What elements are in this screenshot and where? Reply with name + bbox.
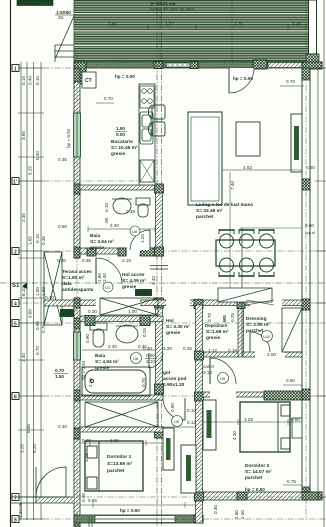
level box 1.00 left: [60, 309, 74, 317]
dining table: [216, 240, 275, 266]
dressing door leaf+arc: [249, 332, 251, 352]
left wall crosshatch columns: [74, 68, 80, 82]
svg-text:2.15: 2.15: [122, 258, 131, 263]
svg-text:S=13.69 m²: S=13.69 m²: [107, 461, 133, 467]
nightstands dorm2: [292, 418, 302, 438]
wall bath1/hol acces y250: [80, 248, 163, 254]
svg-text:1.00: 1.00: [128, 309, 137, 314]
svg-text:0.25: 0.25: [183, 346, 192, 351]
middle wall horizontal y300 full: [80, 300, 302, 306]
svg-text:2.79: 2.79: [234, 22, 243, 27]
grid line axis wall x199: [198, 298, 200, 523]
svg-text:hp = 0.92: hp = 0.92: [66, 128, 71, 148]
svg-text:parchet: parchet: [107, 468, 125, 474]
svg-text:U10: U10: [263, 334, 271, 339]
svg-text:0.70: 0.70: [55, 368, 64, 373]
hol short wall stub: [150, 266, 168, 270]
svg-text:gol: gol: [163, 370, 170, 376]
svg-text:7.40: 7.40: [230, 181, 235, 190]
svg-text:2.40: 2.40: [102, 273, 107, 282]
svg-text:S= 4.09 m²: S= 4.09 m²: [122, 278, 146, 284]
section line vertical S: [157, 0, 162, 527]
svg-text:U8: U8: [132, 229, 138, 234]
top exterior wall: [74, 62, 322, 68]
svg-text:1.20: 1.20: [163, 346, 172, 351]
label Baia 2: [95, 353, 119, 371]
chair 1: [152, 105, 165, 119]
label Depozitare: [205, 323, 229, 341]
svg-text:0.95: 0.95: [81, 493, 86, 502]
axis 4 horizontal: [12, 302, 326, 304]
svg-text:7: 7: [14, 496, 17, 502]
svg-text:S= 10.46 m²: S= 10.46 m²: [111, 145, 138, 151]
dorm2 dim line: [203, 421, 302, 423]
svg-text:0.10: 0.10: [104, 203, 109, 212]
svg-text:0.90: 0.90: [85, 334, 90, 343]
sink bath1: [112, 198, 132, 214]
front door arc: [96, 258, 122, 284]
label Dormitor 2: [245, 463, 272, 481]
wall kitchen/bath1 horizontal y187: [80, 185, 163, 190]
svg-text:hp = 0.00: hp = 0.00: [115, 74, 135, 79]
svg-text:1.50: 1.50: [55, 374, 64, 379]
svg-text:Baia: Baia: [90, 233, 100, 239]
kitchen sink: [140, 112, 153, 144]
svg-text:5: 5: [14, 322, 17, 328]
svg-text:4: 4: [14, 302, 17, 308]
svg-text:0.40: 0.40: [28, 76, 33, 85]
svg-text:2.00: 2.00: [267, 352, 276, 357]
grid bubble 2: [12, 248, 19, 256]
chairs bottom row: [220, 258, 234, 272]
svg-text:Hol: Hol: [166, 318, 174, 324]
wall y430 dorm1 top: [80, 427, 163, 432]
svg-text:0.60: 0.60: [291, 417, 300, 422]
svg-text:U9: U9: [174, 419, 180, 424]
svg-text:2.00: 2.00: [240, 510, 245, 519]
svg-text:0.60: 0.60: [286, 378, 295, 383]
svg-text:0.30: 0.30: [213, 505, 218, 514]
svg-text:gresie: gresie: [90, 245, 104, 251]
svg-text:parchet: parchet: [246, 328, 264, 334]
svg-text:±0.00: ±0.00: [137, 291, 149, 296]
kitchen window in left wall: [74, 113, 81, 157]
svg-text:0.18: 0.18: [228, 348, 237, 353]
svg-text:S=1.68 m²: S=1.68 m²: [206, 329, 229, 335]
svg-text:0.75: 0.75: [287, 479, 296, 484]
svg-text:S= 22.01 mp: S= 22.01 mp: [150, 1, 176, 6]
svg-text:acces pod: acces pod: [163, 376, 187, 382]
svg-text:0.25: 0.25: [142, 328, 147, 337]
svg-text:1.40: 1.40: [151, 276, 156, 285]
grid bubble 6: [12, 393, 19, 401]
svg-text:6.65: 6.65: [26, 424, 31, 433]
svg-text:Baia: Baia: [95, 353, 105, 359]
svg-text:Hol acces: Hol acces: [122, 272, 145, 278]
svg-text:0.70: 0.70: [35, 346, 40, 355]
svg-text:CT: CT: [85, 78, 92, 84]
couch right wall: [291, 114, 302, 172]
svg-text:Dressing: Dressing: [246, 316, 267, 322]
svg-text:8: 8: [14, 518, 17, 524]
label Bucatarie: [111, 139, 138, 157]
bottom wall left part: [74, 515, 203, 523]
spine wall vertical x158 bath1 right: [156, 185, 163, 254]
dorm1 dim line: [80, 442, 163, 444]
living rug line: [240, 227, 302, 229]
svg-text:sup.af: sup.af: [305, 231, 315, 235]
axis 6 horizontal: [12, 395, 326, 397]
terrace door arc: [229, 68, 254, 93]
svg-text:.60: .60: [104, 217, 109, 224]
terasa acces steps box: [44, 252, 62, 325]
svg-text:hp = 0.60: hp = 0.60: [245, 487, 265, 492]
svg-text:dala: dala: [62, 281, 72, 287]
top wall corner columns crosshatch: [74, 62, 86, 84]
svg-text:2.15: 2.15: [88, 378, 93, 387]
door tag U8: [130, 226, 140, 236]
fridge: [140, 160, 154, 182]
grid line axis D (right wall): [305, 0, 307, 520]
svg-text:U1: U1: [105, 285, 111, 290]
dim 7.40 vertical: [229, 172, 231, 300]
label Hol acces: [122, 272, 146, 290]
svg-text:0.70: 0.70: [286, 79, 295, 84]
dressing wardrobe right: [282, 308, 302, 352]
axis 8 horizontal: [12, 518, 326, 520]
svg-text:0.60: 0.60: [28, 309, 33, 318]
grid bubble 8: [12, 516, 19, 524]
section marker S1: [12, 283, 27, 289]
svg-text:0.30: 0.30: [57, 258, 66, 263]
dim ticks left: [18, 68, 44, 519]
svg-text:1.20: 1.20: [140, 234, 145, 243]
svg-text:1': 1': [13, 180, 17, 186]
CT boiler box: [82, 72, 96, 88]
svg-text:U9: U9: [220, 376, 226, 381]
svg-text:Terasa acces: Terasa acces: [62, 269, 92, 275]
bottom-left wall window dormitor1: [95, 516, 175, 523]
terrace dimension line: [110, 26, 306, 28]
label Dressing: [246, 316, 270, 334]
svg-text:6.10: 6.10: [21, 287, 26, 296]
svg-text:0.25: 0.25: [230, 313, 235, 322]
svg-text:5.40: 5.40: [35, 151, 40, 160]
svg-text:0.30: 0.30: [88, 309, 97, 314]
svg-text:S= 3.64 m²: S= 3.64 m²: [90, 239, 114, 245]
svg-text:parchet: parchet: [196, 214, 214, 220]
spine wall vertical x158 lower part: [156, 298, 163, 400]
dressing door tag U10: [262, 331, 273, 342]
svg-text:0.40: 0.40: [58, 424, 67, 429]
label Baia 1: [90, 233, 114, 251]
svg-text:0.10: 0.10: [187, 408, 196, 413]
svg-text:S= 2.99 m²: S= 2.99 m²: [246, 322, 270, 328]
svg-text:0.35: 0.35: [82, 258, 91, 263]
bath2 top wall: [80, 316, 163, 322]
svg-text:S= 3.30 m²: S= 3.30 m²: [166, 324, 190, 330]
svg-text:1.12: 1.12: [208, 348, 217, 353]
svg-text:0.70: 0.70: [104, 96, 113, 101]
svg-text:0.90x1.20: 0.90x1.20: [163, 382, 185, 388]
svg-text:hp = 0.00: hp = 0.00: [233, 76, 253, 81]
svg-text:0.35: 0.35: [58, 157, 67, 162]
svg-text:Living + loc de luat masa: Living + loc de luat masa: [196, 202, 253, 208]
section S1 horizontal: [0, 282, 326, 284]
chair 2: [152, 122, 165, 136]
svg-text:1.50: 1.50: [116, 126, 125, 131]
sink bath2: [116, 325, 138, 343]
dressing wardrobe diagonals: [246, 300, 274, 305]
top wall window (kitchen-living): [166, 63, 191, 67]
svg-text:3.65: 3.65: [21, 131, 26, 140]
wall x242 vertical depozitare/dressing: [238, 300, 244, 357]
svg-text:gresie: gresie: [111, 151, 125, 157]
svg-text:0.90: 0.90: [35, 321, 40, 330]
coffee table: [236, 122, 260, 156]
wall y395 bath2 bottom: [80, 395, 163, 400]
svg-text:C.T.A. -0.30: C.T.A. -0.30: [19, 0, 42, 5]
svg-text:Depozitare: Depozitare: [205, 323, 228, 328]
left dim texts (rotated): [18, 76, 46, 518]
svg-text:5.20: 5.20: [32, 444, 37, 453]
gate door arc: [36, 467, 66, 497]
label Living: [196, 202, 253, 220]
svg-text:gresie: gresie: [166, 330, 180, 336]
bath2 door leaf and arc: [148, 353, 150, 368]
axis 7 horizontal: [12, 496, 326, 498]
svg-text:Bucatarie: Bucatarie: [111, 139, 133, 145]
svg-text:2.35: 2.35: [21, 213, 26, 222]
door gaps in y300 wall: [96, 299, 140, 307]
toilet bath2: [90, 323, 107, 347]
svg-text:0.35: 0.35: [41, 236, 46, 245]
svg-text:antiderapanta: antiderapanta: [62, 287, 94, 293]
grid bubble 5: [12, 320, 19, 328]
level box +-0.00: [135, 289, 152, 296]
svg-text:0.35: 0.35: [126, 209, 135, 214]
svg-text:0.85: 0.85: [88, 498, 97, 503]
corridor door arc to dorm1: [163, 398, 185, 420]
svg-text:6: 6: [14, 395, 17, 401]
left exterior wall: [74, 68, 80, 258]
svg-text:Dormitor 2: Dormitor 2: [245, 463, 270, 469]
long table living: [188, 112, 222, 205]
kitchen counter right: [139, 84, 155, 185]
svg-text:1: 1: [14, 67, 17, 73]
bath2 window in left wall: [74, 332, 81, 360]
grid line axis A (left wall): [76, 55, 78, 527]
svg-text:2.65: 2.65: [108, 22, 117, 27]
deck plank joints (vertical faint lines): [160, 0, 232, 62]
grid bubble 1: [12, 65, 19, 73]
bathtub: [82, 367, 150, 396]
svg-text:0.00: 0.00: [116, 132, 125, 137]
svg-text:3.10: 3.10: [203, 370, 212, 375]
top wall lighter right segment: [268, 63, 302, 68]
bed dorm1: [85, 441, 143, 491]
bath1 door opening in y250 wall: [127, 248, 140, 255]
svg-text:3.20: 3.20: [20, 444, 25, 453]
svg-text:2.40: 2.40: [21, 353, 26, 362]
terrace deck hatched area: [74, 0, 310, 62]
svg-text:S=1.80 m²: S=1.80 m²: [62, 275, 85, 281]
svg-text:0.70: 0.70: [207, 313, 212, 322]
dresser corridor: [163, 428, 174, 470]
svg-text:0.10: 0.10: [45, 295, 54, 300]
svg-text:0.12: 0.12: [187, 420, 196, 425]
svg-text:0.10: 0.10: [35, 234, 40, 243]
svg-text:S1: S1: [12, 283, 20, 289]
window parapet dims 1.50/0.00: [116, 126, 125, 137]
svg-text:0.90: 0.90: [58, 224, 67, 229]
svg-text:cas.0: cas.0: [203, 364, 214, 369]
exterior stairs to terrace: [55, 10, 74, 62]
svg-text:2: 2: [14, 250, 17, 256]
downspout: [89, 516, 92, 527]
svg-text:1.37: 1.37: [165, 22, 174, 27]
svg-text:parchet: parchet: [245, 475, 263, 481]
stove 4 burners: [140, 86, 154, 108]
svg-text:U8: U8: [133, 356, 139, 361]
svg-text:Dormitor 1: Dormitor 1: [107, 454, 132, 460]
gol acces pod label: [163, 370, 187, 388]
axis 1' horizontal: [12, 180, 160, 182]
svg-text:2.10: 2.10: [146, 359, 155, 364]
svg-text:0.90: 0.90: [146, 353, 155, 358]
svg-text:4.53: 4.53: [243, 165, 252, 170]
chairs top row: [219, 229, 274, 277]
svg-text:gresie: gresie: [122, 284, 136, 290]
svg-text:S= 4.94 m²: S= 4.94 m²: [95, 359, 119, 365]
svg-text:hp = 0.60: hp = 0.60: [120, 508, 140, 513]
svg-text:0.90: 0.90: [170, 403, 175, 412]
bottom wall right part (stepped): [203, 492, 322, 500]
svg-text:0.40: 0.40: [143, 346, 152, 351]
right exterior wall: [302, 68, 310, 500]
toilet bath1: [136, 198, 150, 217]
svg-text:S= 33.49 m²: S= 33.49 m²: [196, 208, 223, 214]
svg-text:2.40: 2.40: [110, 223, 119, 228]
bed dorm2: [240, 402, 290, 452]
svg-text:6.25: 6.25: [28, 166, 33, 175]
wardrobe dorm2: [203, 400, 216, 450]
label box C.T.A. -0.30: [17, 0, 53, 6]
grid bubble 4: [12, 300, 19, 308]
label Hol: [166, 318, 190, 336]
wall y395 corridor/dorm2: [203, 392, 302, 397]
label Terasa acces: [62, 269, 94, 293]
terrace chimney/pillar white strip right: [309, 0, 317, 54]
bath2 door tag: [131, 353, 142, 364]
grid bubble 7: [12, 494, 19, 502]
svg-text:0.60: 0.60: [306, 165, 315, 170]
grid bubble 1': [12, 178, 19, 186]
wall y355 (hol/bedrooms): [196, 352, 240, 357]
svg-text:1.60: 1.60: [234, 510, 239, 519]
svg-text:0.15: 0.15: [21, 76, 26, 85]
corridor door arc to dorm2: [210, 358, 236, 384]
dim chain verticals: [21, 62, 41, 520]
bath1 door arc: [130, 230, 150, 250]
wall x199 vertical (dorm1/dorm2): [196, 305, 203, 523]
svg-text:0.75: 0.75: [141, 378, 146, 387]
wall y345 dressing bottom: [243, 352, 302, 357]
living dim line 4.53: [222, 169, 302, 171]
svg-text:2tr.: 2tr.: [58, 15, 64, 20]
pillar crosshatch foot: [306, 54, 319, 66]
piano/desk wedge: [218, 288, 272, 302]
svg-text:1.00: 1.00: [35, 287, 40, 296]
svg-text:1.16: 1.16: [292, 22, 301, 27]
svg-text:gresie: gresie: [206, 335, 220, 341]
wardrobe dorm1: [181, 445, 196, 493]
axis 1 horizontal: [12, 67, 326, 69]
entry landing wall stub: [44, 300, 74, 306]
label Dormitor 1: [107, 454, 133, 474]
site left boundary line: [10, 0, 12, 527]
door tag U1: [103, 282, 113, 292]
axis 2 horizontal: [12, 250, 326, 252]
svg-text:1.65: 1.65: [28, 236, 33, 245]
svg-text:0.10: 0.10: [35, 76, 40, 85]
svg-text:MS: MS: [222, 315, 227, 322]
axis 5 horizontal: [12, 322, 326, 324]
vertical dim line through dining: [241, 228, 243, 356]
svg-text:1.00: 1.00: [62, 311, 71, 316]
svg-text:S= 14.07 m²: S= 14.07 m²: [245, 469, 272, 475]
svg-text:3.28: 3.28: [244, 417, 253, 422]
svg-text:2.30: 2.30: [108, 344, 117, 349]
svg-text:0.60: 0.60: [305, 223, 314, 228]
svg-text:4.30: 4.30: [232, 431, 237, 440]
